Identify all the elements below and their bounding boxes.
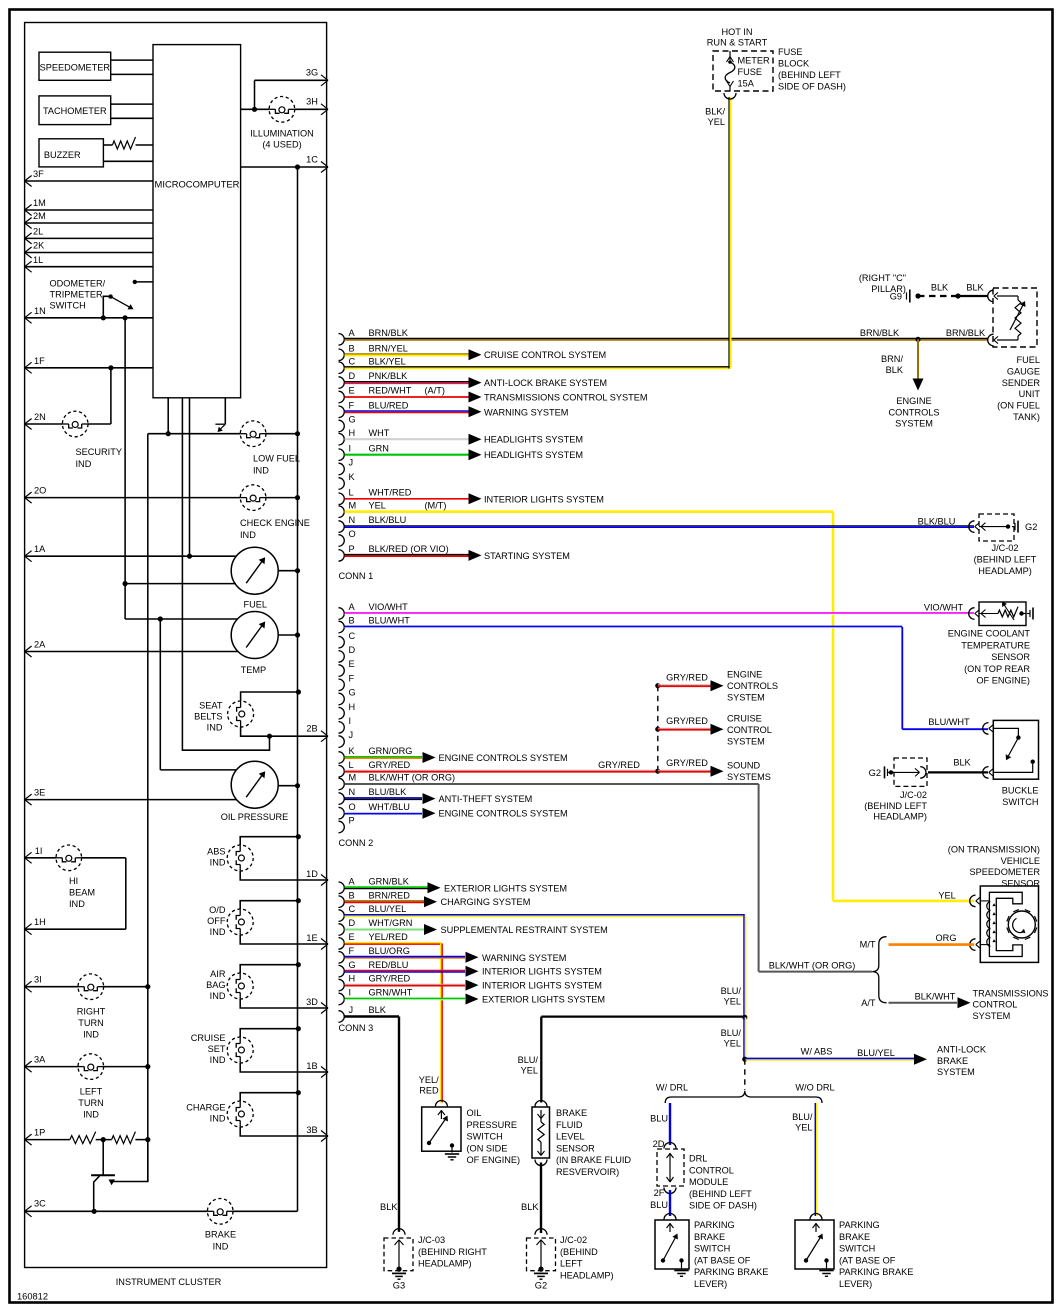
svg-text:GRN/WHT: GRN/WHT — [369, 988, 413, 998]
security indicator lamp — [62, 411, 122, 469]
svg-text:D: D — [349, 371, 356, 381]
CONN2 pin A wire VIO/WHT to coolant sensor — [339, 602, 975, 619]
CONN1 pin K — [339, 472, 356, 489]
svg-text:MICROCOMPUTER: MICROCOMPUTER — [155, 179, 240, 190]
svg-text:SWITCH: SWITCH — [839, 1244, 875, 1254]
svg-text:SPEEDOMETER: SPEEDOMETER — [970, 867, 1041, 877]
svg-text:1M: 1M — [33, 198, 46, 208]
svg-text:O: O — [349, 529, 356, 539]
svg-text:TANK): TANK) — [1013, 412, 1040, 422]
svg-text:GRN/ORG: GRN/ORG — [369, 746, 413, 756]
svg-text:1F: 1F — [34, 356, 45, 366]
svg-text:ENGINE CONTROLS SYSTEM: ENGINE CONTROLS SYSTEM — [439, 809, 568, 819]
wire 1C — [241, 154, 328, 172]
svg-text:PRESSURE: PRESSURE — [467, 1120, 518, 1130]
wire 1H — [25, 858, 126, 935]
svg-text:(BEHIND LEFT: (BEHIND LEFT — [689, 1189, 752, 1199]
svg-text:SET: SET — [208, 1044, 226, 1054]
svg-text:(BEHIND LEFT: (BEHIND LEFT — [778, 70, 841, 80]
svg-text:K: K — [349, 746, 356, 756]
svg-text:SYSTEM: SYSTEM — [727, 737, 765, 747]
svg-text:ANTI-LOCK BRAKE SYSTEM: ANTI-LOCK BRAKE SYSTEM — [484, 378, 607, 388]
CONN1 pin L wire WHT/RED to interior lights — [339, 487, 604, 504]
svg-text:3F: 3F — [33, 169, 44, 179]
parking brake switch (left) — [655, 1214, 768, 1290]
bus wire (cluster right feed) — [297, 167, 299, 1211]
svg-text:BRN/BLK: BRN/BLK — [946, 328, 986, 338]
svg-text:E: E — [349, 386, 355, 396]
wire BLK/WHT A/T to transmissions control system — [861, 988, 1048, 1021]
svg-text:J/C-02: J/C-02 — [991, 543, 1018, 553]
svg-text:AIR: AIR — [210, 969, 226, 979]
tachometer — [39, 96, 111, 125]
svg-text:BRAKE: BRAKE — [205, 1230, 236, 1240]
svg-text:H: H — [349, 974, 356, 984]
svg-text:BUZZER: BUZZER — [44, 150, 81, 160]
svg-text:(4 USED): (4 USED) — [262, 140, 301, 150]
CONN2 pin D — [339, 645, 356, 662]
fuse METER FUSE 15A in fuse block — [705, 47, 846, 127]
svg-text:LEVEL: LEVEL — [556, 1132, 585, 1142]
oil pressure gauge — [221, 761, 289, 822]
node GRY/RED splice (dashed) — [655, 683, 660, 774]
svg-text:SWITCH: SWITCH — [50, 301, 86, 311]
ground G3 — [392, 1273, 406, 1290]
svg-text:SYSTEM: SYSTEM — [973, 1011, 1011, 1021]
wire GRY/RED branch to sound systems — [658, 758, 771, 782]
svg-text:A: A — [349, 602, 356, 612]
CRUISE SET indicator lamp — [191, 1033, 253, 1065]
svg-text:1L: 1L — [33, 255, 43, 265]
svg-text:G2: G2 — [1025, 522, 1037, 532]
svg-text:IND: IND — [83, 1030, 99, 1040]
svg-text:J: J — [349, 458, 354, 468]
svg-text:IND: IND — [69, 899, 85, 909]
wire 3G — [255, 68, 329, 110]
svg-text:BRN/BLK: BRN/BLK — [860, 328, 900, 338]
wire 3H illumination — [241, 97, 328, 115]
svg-text:SOUND: SOUND — [727, 761, 761, 771]
CONN2 pin I — [339, 716, 352, 733]
ground G2 — [534, 1273, 548, 1290]
svg-text:L: L — [349, 760, 354, 770]
CONN3 pin B wire BRN/RED to charging system — [339, 890, 531, 907]
svg-text:HEADLAMP): HEADLAMP) — [560, 1270, 614, 1280]
svg-text:RED/BLU: RED/BLU — [369, 960, 409, 970]
wire GRY/RED branch to engine controls — [658, 670, 778, 703]
svg-text:3D: 3D — [306, 997, 318, 1007]
svg-text:BLU/WHT: BLU/WHT — [928, 717, 970, 727]
svg-text:BRAKE: BRAKE — [556, 1108, 587, 1118]
svg-text:BRN/YEL: BRN/YEL — [369, 343, 408, 353]
wire low fuel lamp — [148, 398, 300, 437]
wire 1P — [25, 1128, 70, 1146]
svg-text:I: I — [349, 716, 352, 726]
CONN1 pin N wire BLK/BLU to J/C-02 — [339, 515, 975, 532]
svg-text:1N: 1N — [34, 306, 46, 316]
svg-text:B: B — [349, 890, 355, 900]
wire 3A — [25, 1055, 151, 1073]
wire 1A — [25, 398, 237, 562]
svg-text:BLK/WHT: BLK/WHT — [915, 991, 956, 1001]
svg-text:WHT/RED: WHT/RED — [369, 487, 412, 497]
CONN3 pin A wire GRN/BLK to exterior lights — [339, 876, 568, 893]
svg-text:CONTROL: CONTROL — [973, 1000, 1018, 1010]
svg-text:ANTI-LOCK: ANTI-LOCK — [937, 1045, 987, 1055]
svg-text:SUPPLEMENTAL RESTRAINT SYSTEM: SUPPLEMENTAL RESTRAINT SYSTEM — [441, 925, 608, 935]
wire BLU to DRL control module — [650, 1103, 670, 1149]
wire 3F — [25, 169, 153, 186]
svg-text:BLK: BLK — [931, 283, 949, 293]
junction J/C-02 (behind left headlamp) lower — [864, 758, 927, 822]
wire BLK buckle switch to J/C-02 — [928, 758, 988, 773]
wire seat belts to microcomputer pin — [182, 398, 269, 750]
wire BLU/YEL to parking brake switch (right) — [792, 1103, 817, 1216]
svg-text:3C: 3C — [34, 1198, 46, 1208]
svg-text:CHARGING SYSTEM: CHARGING SYSTEM — [441, 897, 531, 907]
svg-text:VIO/WHT: VIO/WHT — [369, 602, 409, 612]
svg-text:SECURITY: SECURITY — [76, 447, 122, 457]
svg-text:SYSTEM: SYSTEM — [895, 419, 933, 429]
svg-text:GRY/RED: GRY/RED — [598, 760, 640, 770]
svg-text:TURN: TURN — [78, 1018, 104, 1028]
svg-text:E: E — [349, 659, 355, 669]
seat belts indicator lamp — [194, 701, 254, 733]
CONN1 pin B wire BRN/YEL to cruise control — [339, 343, 607, 360]
svg-text:WHT/GRN: WHT/GRN — [369, 918, 413, 928]
svg-text:BLK: BLK — [380, 1202, 398, 1212]
svg-text:(ON TRANSMISSION): (ON TRANSMISSION) — [948, 845, 1040, 855]
svg-text:H: H — [349, 702, 356, 712]
svg-text:BLK/: BLK/ — [705, 107, 725, 117]
svg-text:J: J — [349, 730, 354, 740]
svg-text:M/T: M/T — [860, 940, 876, 950]
svg-text:BLK: BLK — [521, 1202, 539, 1212]
svg-text:SYSTEMS: SYSTEMS — [727, 772, 771, 782]
wire CHARGE lamp to bus — [240, 1090, 301, 1101]
svg-text:OF ENGINE): OF ENGINE) — [467, 1155, 521, 1165]
svg-text:IND: IND — [76, 459, 92, 469]
wire 1N — [25, 306, 153, 323]
wire GRY/RED branch to cruise control — [658, 714, 772, 747]
svg-text:BELTS: BELTS — [194, 712, 222, 722]
wire 3C — [25, 1198, 298, 1217]
buckle switch — [983, 720, 1039, 807]
svg-text:GAUGE: GAUGE — [1007, 366, 1040, 376]
CONN2 pin H — [339, 702, 356, 719]
wire dashed to DRL brace — [744, 1059, 746, 1090]
svg-text:INTERIOR LIGHTS SYSTEM: INTERIOR LIGHTS SYSTEM — [482, 967, 602, 977]
svg-text:IND: IND — [210, 1055, 226, 1065]
svg-text:PARKING BRAKE: PARKING BRAKE — [694, 1267, 768, 1277]
CONN1 pin J — [339, 458, 354, 475]
wire left bus (turn/charge feed) — [147, 434, 149, 1182]
svg-text:A: A — [349, 876, 356, 886]
svg-text:BLU/YEL: BLU/YEL — [857, 1048, 895, 1058]
CONN2 pin O wire WHT/BLU to engine controls — [339, 802, 568, 819]
svg-text:CHARGE: CHARGE — [186, 1102, 225, 1112]
svg-text:YEL/: YEL/ — [419, 1075, 439, 1085]
svg-text:CONTROL: CONTROL — [727, 725, 772, 735]
svg-text:W/O DRL: W/O DRL — [795, 1083, 834, 1093]
svg-text:1P: 1P — [34, 1128, 45, 1138]
svg-text:1B: 1B — [306, 1061, 317, 1071]
ground G9 (right C pillar) — [859, 273, 921, 303]
wire BLK dashed to fuel sender — [918, 283, 961, 299]
svg-text:3A: 3A — [34, 1055, 46, 1065]
svg-text:MODULE: MODULE — [689, 1177, 728, 1187]
svg-text:I: I — [349, 988, 352, 998]
svg-text:1E: 1E — [306, 933, 317, 943]
node BRN/BLK splice — [860, 328, 986, 342]
svg-text:BRAKE: BRAKE — [694, 1232, 725, 1242]
ABS indicator lamp — [207, 845, 253, 871]
svg-text:DRL: DRL — [689, 1154, 707, 1164]
svg-text:CONN 1: CONN 1 — [339, 571, 374, 581]
svg-text:C: C — [349, 356, 356, 366]
svg-text:G: G — [349, 415, 356, 425]
svg-text:BLU/: BLU/ — [721, 1028, 742, 1038]
svg-text:BLK: BLK — [953, 758, 971, 768]
wire 2N — [25, 368, 111, 430]
svg-text:IND: IND — [213, 1242, 229, 1252]
svg-text:BLU/ORG: BLU/ORG — [369, 946, 410, 956]
wire 2O — [25, 486, 301, 504]
svg-text:YEL: YEL — [724, 1039, 741, 1049]
svg-text:1C: 1C — [306, 154, 318, 164]
svg-text:(RIGHT "C": (RIGHT "C" — [859, 273, 906, 283]
svg-text:METER: METER — [738, 56, 771, 66]
svg-text:IND: IND — [83, 1110, 99, 1120]
instrument cluster enclosure — [17, 23, 327, 1302]
svg-text:M: M — [349, 773, 357, 783]
svg-text:UNIT: UNIT — [1019, 389, 1041, 399]
svg-text:IND: IND — [240, 530, 256, 540]
svg-text:PARKING BRAKE: PARKING BRAKE — [839, 1267, 913, 1277]
wire BLU/YEL W/ ABS to anti-lock brake system — [745, 1045, 987, 1078]
svg-text:SPEEDOMETER: SPEEDOMETER — [40, 63, 111, 73]
svg-text:2K: 2K — [33, 241, 45, 251]
svg-text:CRUISE: CRUISE — [191, 1033, 226, 1043]
wire BRN/BLK to engine controls system — [881, 339, 939, 428]
svg-text:I: I — [349, 443, 352, 453]
svg-text:E: E — [349, 932, 355, 942]
svg-text:YEL: YEL — [938, 891, 955, 901]
svg-text:ENGINE: ENGINE — [727, 670, 762, 680]
svg-text:H: H — [349, 428, 356, 438]
svg-text:BLK/WHT (OR ORG): BLK/WHT (OR ORG) — [369, 773, 456, 783]
svg-text:SENSOR: SENSOR — [1001, 878, 1040, 888]
svg-text:ENGINE CONTROLS SYSTEM: ENGINE CONTROLS SYSTEM — [439, 753, 568, 763]
svg-text:G2: G2 — [535, 1281, 547, 1291]
svg-text:SYSTEM: SYSTEM — [937, 1067, 975, 1077]
wire seat belts top to bus — [241, 689, 301, 701]
svg-text:2M: 2M — [33, 211, 46, 221]
svg-text:IND: IND — [210, 857, 226, 867]
CONN3 pin E wire YEL/RED to oil pressure switch — [339, 932, 443, 1103]
svg-text:N: N — [349, 787, 356, 797]
CONN1 pin C wire BLK/YEL to fuse block — [339, 97, 731, 374]
svg-text:GRY/RED: GRY/RED — [666, 672, 708, 682]
svg-text:2O: 2O — [34, 486, 46, 496]
svg-text:BRN/BLK: BRN/BLK — [369, 328, 409, 338]
svg-text:3I: 3I — [34, 975, 42, 985]
transistor Q1 — [91, 1140, 148, 1211]
svg-text:J: J — [349, 1005, 354, 1015]
svg-text:FUSE: FUSE — [778, 47, 803, 57]
svg-text:BLU/YEL: BLU/YEL — [369, 904, 407, 914]
low fuel sender contact (thermistor symbol) — [215, 398, 225, 432]
CONN2 pin F — [339, 673, 355, 690]
brace M/T vs A/T — [872, 937, 886, 1003]
svg-text:(BEHIND RIGHT: (BEHIND RIGHT — [418, 1247, 487, 1257]
wire 2B seat belts bottom — [241, 724, 328, 742]
svg-text:(A/T): (A/T) — [425, 386, 445, 396]
svg-text:BLU: BLU — [650, 1114, 668, 1124]
svg-text:WARNING SYSTEM: WARNING SYSTEM — [484, 407, 568, 417]
left turn indicator lamp — [78, 1054, 104, 1120]
svg-text:15A: 15A — [738, 79, 755, 89]
svg-text:EXTERIOR LIGHTS SYSTEM: EXTERIOR LIGHTS SYSTEM — [444, 883, 567, 893]
wire ORG M/T to speedometer sensor — [860, 933, 974, 950]
wire 2L — [25, 227, 153, 244]
svg-text:YEL/RED: YEL/RED — [369, 932, 409, 942]
svg-text:HEADLIGHTS SYSTEM: HEADLIGHTS SYSTEM — [484, 450, 583, 460]
wire 3I — [25, 975, 151, 993]
wire 2A — [25, 640, 238, 658]
svg-text:STARTING SYSTEM: STARTING SYSTEM — [484, 551, 570, 561]
svg-text:TACHOMETER: TACHOMETER — [43, 106, 107, 116]
svg-text:FLUID: FLUID — [556, 1120, 583, 1130]
CONN2 pin M wire BLK/WHT (OR ORG) to transmission branch — [339, 773, 873, 972]
svg-text:HI: HI — [69, 876, 78, 886]
wire 1B — [240, 1061, 328, 1078]
wire oil pressure gauge to bus — [278, 783, 301, 788]
svg-text:PARKING: PARKING — [839, 1220, 880, 1230]
CONN1 pin O — [339, 529, 356, 546]
CONN2 pin E — [339, 659, 355, 676]
svg-text:BLK: BLK — [369, 1005, 387, 1015]
svg-text:ORG: ORG — [936, 933, 957, 943]
AIR BAG indicator lamp — [206, 969, 253, 1001]
svg-text:BLK/RED (OR VIO): BLK/RED (OR VIO) — [369, 544, 449, 554]
svg-text:BLK: BLK — [966, 283, 984, 293]
wire 2K — [25, 241, 153, 258]
svg-text:YEL: YEL — [795, 1123, 812, 1133]
CONN2 pin B wire BLU/WHT to buckle switch — [339, 616, 989, 730]
svg-text:1I: 1I — [35, 846, 43, 856]
wire 3B — [240, 1125, 328, 1142]
resistor R1 (1P) — [70, 1132, 112, 1144]
wire 1N branch to fuel gauge and temp gauge — [123, 318, 238, 622]
wire 1D — [240, 869, 328, 886]
CONN2 pin K wire GRN/ORG to engine controls — [339, 746, 568, 763]
svg-text:BRN/: BRN/ — [881, 354, 903, 364]
svg-text:(M/T): (M/T) — [425, 500, 447, 510]
right turn indicator lamp — [77, 974, 106, 1040]
svg-text:G: G — [349, 960, 356, 970]
svg-text:CHECK ENGINE: CHECK ENGINE — [240, 518, 310, 528]
svg-text:SYSTEM: SYSTEM — [727, 693, 765, 703]
CONN1 pin E wire RED/WHT to transmissions control — [339, 386, 648, 403]
svg-text:LEVER): LEVER) — [839, 1279, 872, 1289]
svg-text:BLU/WHT: BLU/WHT — [369, 616, 411, 626]
svg-text:BLOCK: BLOCK — [778, 59, 810, 69]
svg-text:G3: G3 — [393, 1281, 405, 1291]
svg-text:RED/WHT: RED/WHT — [369, 386, 412, 396]
CONN3 pin F wire BLU/ORG to warning system — [339, 946, 567, 963]
svg-text:RIGHT: RIGHT — [77, 1007, 106, 1017]
svg-text:N: N — [349, 515, 356, 525]
svg-text:ENGINE: ENGINE — [896, 396, 931, 406]
junction J/C-02 (behind left headlamp) bottom — [527, 1229, 614, 1281]
svg-text:CONN 3: CONN 3 — [339, 1023, 374, 1033]
wire AIR BAG lamp to bus — [240, 962, 301, 973]
svg-text:2B: 2B — [306, 724, 317, 734]
brake fluid level sensor — [532, 1101, 631, 1178]
CONN1 pin H wire WHT to headlights — [339, 428, 584, 445]
CONN1 pin M wire YEL to speedometer sensor — [339, 500, 975, 901]
svg-text:F: F — [349, 673, 355, 683]
wire 3D — [240, 997, 328, 1014]
wire CRUISE SET lamp to bus — [240, 1026, 301, 1037]
svg-text:OIL: OIL — [467, 1108, 482, 1118]
CHARGE indicator lamp — [186, 1101, 253, 1127]
svg-text:ANTI-THEFT SYSTEM: ANTI-THEFT SYSTEM — [439, 794, 533, 804]
svg-text:BLU/: BLU/ — [721, 986, 742, 996]
svg-text:(ON TOP REAR: (ON TOP REAR — [964, 664, 1030, 674]
svg-text:3B: 3B — [306, 1125, 317, 1135]
svg-text:L: L — [349, 487, 354, 497]
svg-text:YEL: YEL — [521, 1066, 538, 1076]
svg-text:BLK/BLU: BLK/BLU — [918, 517, 956, 527]
svg-text:G9: G9 — [890, 292, 902, 302]
svg-text:RESVERVOIR): RESVERVOIR) — [556, 1167, 619, 1177]
svg-text:FUSE: FUSE — [738, 67, 763, 77]
svg-text:CRUISE CONTROL SYSTEM: CRUISE CONTROL SYSTEM — [484, 350, 606, 360]
junction J/C-03 (behind right headlamp) — [384, 1229, 487, 1272]
svg-text:PARKING: PARKING — [694, 1220, 735, 1230]
svg-text:A/T: A/T — [861, 998, 876, 1008]
svg-text:BLK: BLK — [886, 365, 904, 375]
svg-text:LEFT: LEFT — [560, 1259, 583, 1269]
svg-text:2N: 2N — [34, 412, 46, 422]
svg-text:M: M — [349, 500, 357, 510]
svg-text:BUCKLE: BUCKLE — [1002, 786, 1039, 796]
svg-text:(ON FUEL: (ON FUEL — [997, 401, 1040, 411]
svg-text:TRIPMETER: TRIPMETER — [50, 290, 103, 300]
svg-text:PNK/BLK: PNK/BLK — [369, 371, 409, 381]
fuel gauge sender unit — [988, 288, 1041, 422]
CONN2 pin L wire GRY/RED — [339, 760, 658, 777]
svg-text:HEADLAMP): HEADLAMP) — [873, 812, 927, 822]
svg-text:BLU/: BLU/ — [518, 1055, 539, 1065]
wire 1M — [25, 198, 153, 215]
svg-text:1D: 1D — [306, 869, 318, 879]
svg-text:IND: IND — [207, 723, 223, 733]
odometer/tripmeter switch — [50, 279, 154, 318]
svg-text:BLU/BLK: BLU/BLK — [369, 787, 408, 797]
svg-text:CONTROL: CONTROL — [689, 1165, 734, 1175]
CONN3 pin C wire BLU/YEL — [339, 904, 746, 1017]
wire 1E — [240, 933, 328, 950]
CONN1 pin F wire BLU/RED to warning system — [339, 400, 569, 417]
microcomputer U1 — [153, 45, 241, 398]
wire 1L — [25, 255, 153, 272]
wire O/D OFF lamp to bus — [240, 898, 301, 909]
svg-text:O: O — [349, 802, 356, 812]
svg-text:3G: 3G — [306, 68, 318, 78]
